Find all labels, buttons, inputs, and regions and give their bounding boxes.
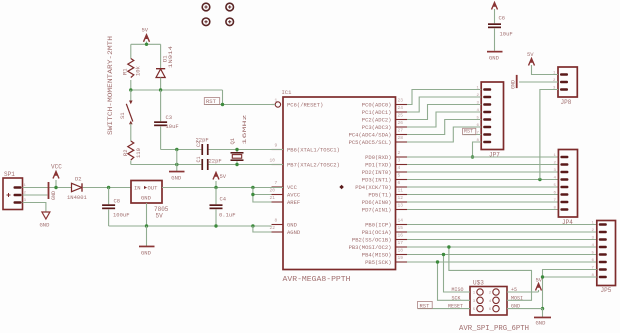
- wire R2 to ground trunk: [131, 164, 177, 166]
- svg-text:10uF: 10uF: [166, 123, 179, 130]
- junction MISO on PB4: [442, 253, 445, 256]
- wire PD4 to JP4 pin5: [407, 186, 558, 188]
- svg-text:23: 23: [398, 98, 404, 104]
- wire GND rail to IC1 pin8: [109, 225, 272, 227]
- svg-text:PD6(AIN0): PD6(AIN0): [362, 199, 392, 206]
- wire PB1 to JP5 pin2: [407, 231, 597, 233]
- svg-text:16: 16: [398, 233, 404, 239]
- svg-text:GND: GND: [511, 80, 517, 89]
- capacitor C2 22pF: [201, 144, 203, 155]
- svg-text:PC6(/RESET): PC6(/RESET): [287, 102, 323, 109]
- wire PB2 to JP5 pin3: [407, 239, 597, 241]
- svg-text:5V: 5V: [220, 173, 227, 180]
- svg-text:14: 14: [398, 218, 404, 224]
- wire RST stub to JP7 pin7: [464, 134, 482, 136]
- junction gnd trunk mid: [175, 163, 178, 166]
- wire reset node rail: [131, 89, 223, 91]
- IC1 pin 20 AVCC: [272, 194, 284, 196]
- wire PD1 to JP4 pin2: [407, 164, 558, 166]
- svg-text:C8: C8: [114, 198, 121, 205]
- svg-text:PB6(XTAL1/TOSC1): PB6(XTAL1/TOSC1): [287, 147, 340, 154]
- capacitor C6 10uF: [494, 9, 496, 23]
- wire PD2 to JP4 pin3: [407, 171, 558, 173]
- junction VCC tap: [54, 186, 57, 189]
- svg-text:RST: RST: [206, 98, 217, 105]
- svg-text:16MHz: 16MHz: [241, 115, 248, 145]
- resistor R2: [128, 141, 134, 160]
- wire PD5 to JP4 pin6: [407, 194, 558, 196]
- svg-text:C4: C4: [220, 196, 227, 203]
- svg-text:13: 13: [398, 203, 404, 209]
- svg-text:9: 9: [275, 143, 278, 149]
- ground symbol (ISP): [542, 309, 544, 318]
- IC1 pin 21 AREF: [272, 201, 284, 203]
- wire GND from ISP pin6: [507, 308, 543, 310]
- svg-text:AVCC: AVCC: [287, 192, 301, 199]
- capacitor C3 10uF: [160, 90, 162, 121]
- svg-text:1: 1: [275, 98, 278, 104]
- mounting hole H3: [202, 18, 210, 26]
- svg-text:GND: GND: [40, 222, 51, 229]
- svg-text:GND: GND: [141, 250, 152, 257]
- junction AVCC row: [251, 193, 254, 196]
- wire 5V to JP8 pin1: [532, 65, 559, 75]
- IC1 pin 23 PC0(ADC0): [396, 104, 408, 106]
- svg-text:AVR_SPI_PRG_6PTH: AVR_SPI_PRG_6PTH: [459, 325, 529, 333]
- svg-text:5: 5: [398, 173, 401, 179]
- svg-text:PB5(SCK): PB5(SCK): [365, 259, 391, 266]
- IC1 pin 8 GND: [272, 224, 284, 226]
- svg-text:22pF: 22pF: [196, 137, 209, 144]
- IC1 pin 5 PD3(INT1): [396, 179, 408, 181]
- net label RST at JP7: [463, 128, 476, 134]
- svg-text:SWITCH-MOMENTARY-2MTH: SWITCH-MOMENTARY-2MTH: [107, 35, 114, 135]
- connector JP4: [558, 150, 577, 218]
- connector JP8: [558, 67, 577, 97]
- svg-text:21: 21: [270, 195, 276, 201]
- svg-text:24: 24: [398, 105, 404, 111]
- svg-text:PD0(RXD): PD0(RXD): [365, 154, 391, 161]
- svg-text:PC3(ADC3): PC3(ADC3): [362, 124, 392, 131]
- svg-text:PB1(OC1A): PB1(OC1A): [362, 229, 392, 236]
- svg-text:26: 26: [398, 120, 404, 126]
- IC1 pin 1 PC6(/RESET): [272, 104, 276, 106]
- power symbol 5V (reset pullup): [144, 35, 150, 42]
- junction AGND trunk: [251, 224, 254, 227]
- IC1 pin 9 PB6(XTAL1/TOSC1): [272, 149, 284, 151]
- IC1 pin 15 PB1(OC1A): [396, 231, 408, 233]
- svg-text:110: 110: [135, 148, 142, 158]
- ground symbol (JP8, rotated): [519, 81, 558, 83]
- switch S1 momentary: [130, 90, 132, 101]
- svg-text:PD3(INT1): PD3(INT1): [362, 177, 392, 184]
- wire PC2 to JP7 pin3: [407, 105, 481, 120]
- wire PB3 to JP5 pin4: [407, 246, 597, 248]
- crystal Q1 16MHz: [236, 150, 238, 153]
- svg-text:C3: C3: [166, 114, 173, 121]
- wire PD0 to JP4 pin1: [407, 156, 558, 158]
- svg-text:1N914: 1N914: [167, 45, 174, 68]
- wire PB4 to JP5 pin5: [407, 254, 597, 256]
- capacitor C4 0.1uF: [215, 188, 217, 205]
- svg-text:R2: R2: [122, 149, 129, 156]
- svg-text:PD7(AIN1): PD7(AIN1): [362, 207, 392, 214]
- IC1 pin 19 PB5(SCK): [396, 261, 408, 263]
- connector JP7: [481, 82, 503, 150]
- wire 5V rail from regulator OUT to IC1 VCC: [162, 187, 283, 189]
- IC1 pin 27 PC4(ADC4/SDA): [396, 134, 408, 136]
- wire PC5 to JP7 pin6: [407, 127, 481, 142]
- junction PD3 to JP8 pin3: [538, 178, 541, 181]
- svg-text:GND: GND: [287, 222, 298, 229]
- mounting hole H2: [226, 3, 234, 11]
- svg-text:GND: GND: [536, 320, 547, 327]
- svg-text:S1: S1: [119, 112, 126, 119]
- svg-text:JP8: JP8: [561, 99, 572, 106]
- wire PC4 to JP7 pin5: [407, 120, 481, 135]
- wire regulator GND pin down: [146, 203, 148, 226]
- svg-text:R1: R1: [122, 68, 129, 75]
- svg-text:6: 6: [398, 180, 401, 186]
- power symbol 5V (C6): [492, 3, 498, 10]
- wire JP7 pin8 to PD0: [473, 142, 482, 157]
- power symbol VCC: [55, 180, 57, 188]
- svg-text:GND: GND: [141, 195, 152, 202]
- capacitor C8 100uF: [108, 188, 110, 205]
- wire MOSI from PB3 around to ISP pin4: [449, 247, 532, 300]
- svg-text:U$3: U$3: [473, 280, 484, 287]
- svg-text:12: 12: [398, 195, 404, 201]
- svg-text:PB3(MOSI/OC2): PB3(MOSI/OC2): [349, 244, 392, 251]
- svg-text:AREF: AREF: [287, 199, 300, 206]
- mounting hole H4: [226, 18, 234, 26]
- svg-text:Q1: Q1: [229, 137, 236, 144]
- IC1 pin 22 AGND: [272, 231, 284, 233]
- svg-text:8: 8: [275, 218, 278, 224]
- svg-text:AGND: AGND: [287, 229, 301, 236]
- IC1 pin 11 PD5(T1): [396, 194, 408, 196]
- IC1 pin 16 PB2(SS/OC1B): [396, 239, 408, 241]
- op-amp U1 -- main MCU IC1 AVR-MEGA8 box: [283, 97, 396, 270]
- mounting hole H1: [202, 3, 210, 11]
- connector SP1 power jack: [3, 178, 23, 210]
- svg-text:2: 2: [398, 150, 401, 156]
- voltage regulator IC2 7805: [131, 181, 162, 204]
- wire RST to IC pin1: [206, 104, 276, 106]
- svg-text:20: 20: [270, 188, 276, 194]
- wire PB0 to JP5 pin1: [407, 224, 597, 226]
- svg-text:10k: 10k: [135, 65, 142, 76]
- wire PD7 to JP4 pin8: [407, 209, 558, 211]
- diode D2 1N4001: [72, 183, 82, 191]
- svg-text:PD4(XCK/T0): PD4(XCK/T0): [355, 184, 391, 191]
- svg-text:1N4001: 1N4001: [67, 194, 88, 201]
- svg-text:IC1: IC1: [282, 89, 293, 96]
- resistor R1: [130, 44, 132, 58]
- junction crystal top: [235, 148, 238, 151]
- svg-text:VCC: VCC: [287, 184, 298, 191]
- svg-text:19: 19: [398, 255, 404, 261]
- junction reset-R1: [129, 88, 132, 91]
- IC1 pin 6 PD4(XCK/T0): [396, 186, 408, 188]
- svg-text:5V: 5V: [527, 51, 534, 58]
- connector JP5: [597, 221, 616, 286]
- svg-text:JP5: JP5: [601, 287, 612, 294]
- IC1 pin 7 VCC: [272, 186, 284, 188]
- power symbol 5V (main rail): [215, 181, 217, 188]
- svg-text:22pF: 22pF: [209, 158, 222, 165]
- junction JP5 pin8 gnd: [541, 275, 544, 278]
- svg-text:RST: RST: [420, 302, 431, 309]
- svg-text:AVR-MEGA8-PPTH: AVR-MEGA8-PPTH: [283, 276, 351, 284]
- junction reset-D1: [159, 88, 162, 91]
- IC1 pin 4 PD2(INT0): [396, 171, 408, 173]
- wire PD3 to JP4 pin4: [407, 179, 558, 181]
- svg-text:IN: IN: [134, 185, 141, 192]
- svg-text:11: 11: [398, 188, 404, 194]
- wire AVCC/AREF trunk: [253, 188, 272, 203]
- IC1 pin 25 PC2(ADC2): [396, 119, 408, 121]
- ground symbol (regulator): [146, 226, 148, 246]
- junction JP7 pin8 on PD0: [471, 155, 474, 158]
- svg-text:4: 4: [398, 165, 401, 171]
- wire JP5 pin7/pin8 to GND trunk: [543, 270, 597, 309]
- ground symbol (crystal caps): [176, 150, 178, 172]
- ground symbol (jack pin2, rotated): [23, 194, 48, 196]
- wire 5V rail to R1/D1: [131, 43, 161, 45]
- wire VIN rail: [23, 187, 72, 189]
- svg-text:28: 28: [398, 135, 404, 141]
- svg-text:PC5(ADC5/SCL): PC5(ADC5/SCL): [349, 139, 392, 146]
- svg-text:PB2(SS/OC1B): PB2(SS/OC1B): [352, 237, 392, 244]
- wire +5 from ISP pin2: [507, 291, 539, 293]
- junction gnd trunk at ISP: [541, 307, 544, 310]
- svg-text:D2: D2: [75, 176, 82, 183]
- svg-text:3: 3: [398, 158, 401, 164]
- wire D2 to regulator IN: [83, 187, 131, 189]
- IC1 pin 28 PC5(ADC5/SCL): [396, 141, 408, 143]
- svg-text:25: 25: [398, 113, 404, 119]
- IC1 pin 2 PD0(RXD): [396, 156, 408, 158]
- svg-text:RST: RST: [464, 129, 473, 135]
- svg-text:C1: C1: [196, 156, 202, 162]
- wire PD6 to JP4 pin7: [407, 201, 558, 203]
- junction 5V rail / C4: [214, 186, 217, 189]
- svg-text:PC2(ADC2): PC2(ADC2): [362, 117, 392, 124]
- svg-text:10uF: 10uF: [500, 31, 513, 38]
- svg-text:PB4(MISO): PB4(MISO): [362, 252, 392, 259]
- capacitor C1 22pF: [201, 159, 203, 170]
- svg-text:15: 15: [398, 225, 404, 231]
- junction regulator GND at rail: [145, 224, 148, 227]
- junction MOSI on PB3: [447, 245, 450, 248]
- svg-text:PC1(ADC1): PC1(ADC1): [362, 109, 392, 116]
- junction reset drop: [221, 103, 224, 106]
- wire reset rail drop to pin1 row: [222, 90, 224, 105]
- wire AGND trunk: [253, 226, 272, 232]
- IC1 pin 24 PC1(ADC1): [396, 111, 408, 113]
- ground symbol (C6): [487, 51, 503, 53]
- svg-text:PD5(T1): PD5(T1): [368, 192, 391, 199]
- IC1 pin 13 PD7(AIN1): [396, 209, 408, 211]
- IC1 pin 18 PB4(MISO): [396, 254, 408, 256]
- wire MISO from PB4: [444, 255, 471, 293]
- wire RST to ISP pin5: [418, 308, 471, 310]
- power symbol 5V (ISP): [538, 290, 540, 292]
- svg-text:10: 10: [270, 158, 276, 164]
- svg-text:5V: 5V: [142, 27, 149, 34]
- diode D1 1N914: [160, 44, 162, 68]
- junction gnd trunk top: [175, 148, 178, 151]
- svg-text:GND: GND: [489, 55, 500, 62]
- svg-text:OUT: OUT: [148, 185, 159, 192]
- svg-text:C6: C6: [499, 15, 506, 22]
- svg-text:PB0(ICP): PB0(ICP): [365, 222, 391, 229]
- IC1 pin 12 PD6(AIN0): [396, 201, 408, 203]
- IC1 pin 17 PB3(MOSI/OC2): [396, 246, 408, 248]
- svg-text:PD1(TXD): PD1(TXD): [365, 162, 391, 169]
- svg-text:GND: GND: [171, 175, 182, 182]
- junction crystal bottom: [235, 163, 238, 166]
- wire PB5 to JP5 pin6: [407, 261, 597, 263]
- svg-text:18: 18: [398, 248, 404, 254]
- wire XTAL2 row (pin 10): [177, 164, 202, 166]
- power symbol 5V (JP8): [529, 59, 535, 66]
- svg-text:PC0(ADC0): PC0(ADC0): [362, 102, 392, 109]
- wire PC3 to JP7 pin4: [407, 112, 481, 127]
- ground symbol (jack pin3, arrow): [23, 203, 46, 213]
- svg-text:17: 17: [398, 240, 404, 246]
- IC1 pin 26 PC3(ADC3): [396, 126, 408, 128]
- svg-text:PC4(ADC4/SDA): PC4(ADC4/SDA): [349, 132, 392, 139]
- svg-text:SP1: SP1: [4, 171, 15, 178]
- wire JP8 pin3 down to PD3: [540, 90, 558, 180]
- junction C4 bottom: [214, 224, 217, 227]
- svg-text:PB7(XTAL2/TOSC2): PB7(XTAL2/TOSC2): [287, 162, 340, 169]
- svg-text:5V: 5V: [156, 213, 164, 220]
- svg-text:27: 27: [398, 128, 404, 134]
- junction SCK on PB5: [436, 260, 439, 263]
- connector U$3 AVR ISP: [470, 287, 507, 316]
- wire XTAL1 row (pin 9): [161, 149, 202, 151]
- IC1 pin 10 PB7(XTAL2/TOSC2): [272, 164, 284, 166]
- wire SCK from PB5: [438, 262, 471, 300]
- net label RST near IC1 pin1: [204, 98, 219, 105]
- svg-text:0.1uF: 0.1uF: [219, 212, 236, 219]
- IC1 pin 14 PB0(ICP): [396, 224, 408, 226]
- svg-text:PD2(INT0): PD2(INT0): [362, 169, 392, 176]
- IC1 pin 3 PD1(TXD): [396, 164, 408, 166]
- junction C8 tap: [107, 186, 110, 189]
- svg-text:7: 7: [275, 180, 278, 186]
- svg-text:100uF: 100uF: [113, 212, 130, 219]
- svg-text:VCC: VCC: [51, 164, 62, 171]
- junction AVCC trunk: [251, 186, 254, 189]
- junction 5V tap: [145, 43, 148, 46]
- wire PC0 to JP7 pin1: [407, 90, 481, 105]
- wire PC1 to JP7 pin2: [407, 97, 481, 112]
- svg-text:GND: GND: [51, 191, 57, 200]
- net label RST at ISP: [418, 301, 433, 308]
- svg-text:5V: 5V: [536, 277, 543, 284]
